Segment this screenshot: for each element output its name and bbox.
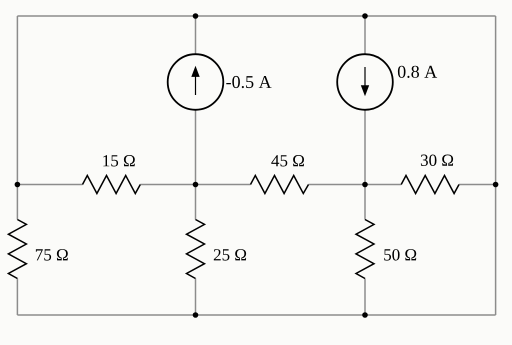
wire vertical 1: 25 ohm to bottom xyxy=(195,279,197,316)
wire top horizontal xyxy=(17,15,495,17)
current source I1 arrow (pointing up) xyxy=(191,66,199,95)
resistor 30 ohm (horizontal) xyxy=(401,176,459,194)
wire vertical 1: current source I1 to middle node xyxy=(195,110,197,184)
label 25 ohm xyxy=(214,249,246,261)
label -0.5 A (current source I1) xyxy=(226,76,271,88)
wire vertical 2: middle node to 50 ohm xyxy=(364,185,366,220)
node dot bottom-2 xyxy=(362,312,368,318)
wire middle horizontal: 45 ohm to node C xyxy=(309,184,402,186)
wire vertical 2: 50 ohm to bottom xyxy=(364,279,366,316)
label 30 ohm xyxy=(421,155,453,167)
wire vertical 1: top to current source I1 xyxy=(195,16,197,54)
node dot middle-left xyxy=(15,182,21,188)
wire middle horizontal: 15 ohm to node B xyxy=(140,184,250,186)
resistor 50 ohm (vertical, right branch) xyxy=(356,220,374,279)
label 0.8 A (current source I2) xyxy=(398,66,437,78)
node dot bottom-1 xyxy=(193,312,199,318)
node dot middle-right xyxy=(493,182,499,188)
wire middle horizontal: 30 ohm to right dot xyxy=(459,184,496,186)
current source I2 (0.8 A) circle xyxy=(337,54,393,110)
node dot top-1 xyxy=(193,13,199,19)
wire left vertical (top segment, node A to middle) xyxy=(16,16,18,220)
label 45 ohm xyxy=(271,155,304,167)
node dot top-2 xyxy=(362,13,368,19)
wire vertical 1: middle node to 25 ohm xyxy=(195,185,197,220)
resistor 45 ohm (horizontal) xyxy=(251,176,309,194)
wire vertical 2: current source I2 to middle node xyxy=(364,110,366,184)
label 15 ohm xyxy=(103,155,135,167)
node dot middle-2 xyxy=(362,182,368,188)
wire bottom horizontal xyxy=(17,314,495,316)
resistor 15 ohm (horizontal) xyxy=(83,176,141,194)
current source I1 (-0.5 A) circle xyxy=(168,54,224,110)
wire vertical 2: top to current source I2 xyxy=(364,16,366,54)
node dot middle-1 xyxy=(193,182,199,188)
label 75 ohm xyxy=(36,249,68,261)
label 50 ohm xyxy=(384,249,416,261)
wire middle horizontal: left dot to 15 ohm xyxy=(17,184,82,186)
current source I2 arrow (pointing down) xyxy=(361,67,369,96)
wire right vertical xyxy=(495,16,497,315)
resistor 25 ohm (vertical, middle branch) xyxy=(187,220,205,279)
resistor 75 ohm (vertical, left branch) xyxy=(8,220,26,279)
wire left vertical (below 75 ohm resistor to bottom) xyxy=(16,279,18,316)
